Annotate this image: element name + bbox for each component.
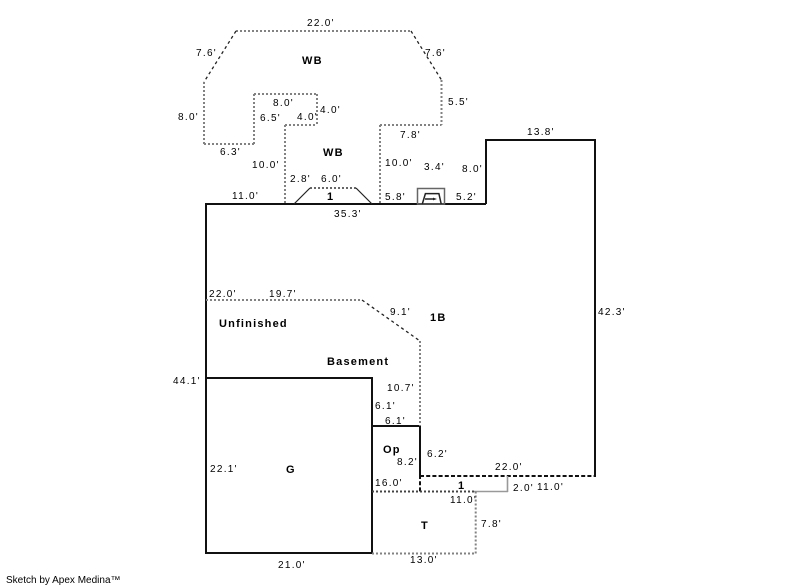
svg-text:5.5': 5.5' [448,97,469,108]
fireplace hearth line [425,198,434,200]
wire: deck WB right diagonal 7.6 [411,31,442,80]
svg-text:6.2': 6.2' [427,449,448,460]
svg-text:2.8': 2.8' [290,174,311,185]
svg-text:Unfinished: Unfinished [219,318,288,330]
wire: patio T right edge 7.8 dotted [475,492,477,555]
svg-text:1: 1 [327,191,334,203]
svg-text:42.3': 42.3' [598,307,626,318]
svg-text:6.0': 6.0' [321,174,342,185]
svg-text:4.0': 4.0' [297,112,318,123]
fireplace chimney outer box [418,189,445,205]
wire: stoop 1 left diagonal 2.8 [294,188,310,204]
svg-text:13.0': 13.0' [410,555,438,566]
wall: basement bottom edge 22.0 dashed [420,475,596,477]
svg-text:7.8': 7.8' [400,130,421,141]
svg-text:6.3': 6.3' [220,147,241,158]
svg-text:8.0': 8.0' [273,98,294,109]
svg-text:3.4': 3.4' [424,162,445,173]
svg-text:T: T [421,520,429,532]
svg-text:Basement: Basement [327,356,389,368]
wire: deck right vertical 5.5 [441,80,443,125]
wire: porch 1 bottom gray solid [474,491,508,493]
wall: basement top edge 35.3 [205,203,486,205]
wire: deck WB left diagonal 7.6 [204,31,236,82]
svg-text:35.3': 35.3' [334,209,362,220]
svg-text:8.0': 8.0' [462,164,483,175]
wire: basement interior dotted 22.0/19.7 [206,299,362,301]
wall: Op top edge 6.1 [372,425,421,427]
svg-text:6.1': 6.1' [385,416,406,427]
svg-text:11.0': 11.0' [232,191,259,202]
svg-text:WB: WB [323,147,344,159]
wire: patio T bottom edge 13.0 dotted [372,553,476,555]
svg-text:11.0': 11.0' [537,482,564,493]
wire: deck WB left vertical 8.0 [203,82,205,144]
svg-text:22.0': 22.0' [307,18,335,29]
wall: basement left edge 44.1 [205,203,207,554]
wire: porch 1 bottom dotted segment 16.0 [372,491,474,493]
wall: basement right edge 42.3 [594,140,596,477]
svg-text:5.2': 5.2' [456,192,477,203]
svg-text:8.2': 8.2' [397,457,418,468]
svg-text:22.1': 22.1' [210,464,238,475]
svg-text:7.8': 7.8' [481,519,502,530]
wire: deck notch right vertical 4.0 [316,94,318,125]
svg-text:22.0': 22.0' [495,462,523,473]
wall: basement top right edge 13.8 [485,139,596,141]
wire: deck notch top edge 8.0 [254,93,317,95]
wire: deck left 10.0 vertical [284,125,286,204]
svg-text:10.0': 10.0' [252,160,280,171]
wire: deck WB bottom edge 6.3 [204,143,254,145]
svg-text:G: G [286,464,296,476]
svg-text:Op: Op [383,444,401,456]
wire: porch 1 right gray vertical 2.0 [507,476,509,492]
fireplace inner firebox [422,194,441,204]
svg-text:22.0': 22.0' [209,289,237,300]
wall: Op right edge 6.2 [419,425,421,475]
svg-text:19.7': 19.7' [269,289,297,300]
svg-text:1: 1 [458,480,465,492]
svg-text:1B: 1B [430,312,446,324]
svg-text:5.8': 5.8' [385,192,406,203]
wire: stoop 1 right diagonal [356,188,372,204]
svg-text:7.6': 7.6' [425,48,446,59]
svg-text:4.0': 4.0' [320,105,341,116]
svg-text:16.0': 16.0' [375,478,403,489]
svg-text:10.7': 10.7' [387,383,415,394]
fireplace hearth arrow tip [433,198,437,201]
wire: basement interior dotted 10.7 vertical [419,341,421,426]
svg-text:6.1': 6.1' [375,401,396,412]
wire: deck WB top edge 22.0 [236,30,411,32]
wall: porch left edge 2.0 dashed [419,475,421,492]
wire: basement interior diagonal 9.1 [362,300,420,341]
svg-text:8.0': 8.0' [178,112,199,123]
svg-text:7.6': 7.6' [196,48,217,59]
wire: deck 7.8 horizontal [380,124,442,126]
svg-text:13.8': 13.8' [527,127,555,138]
wire: deck notch bottom edge 4.0 [285,124,317,126]
wire: stoop 1 top edge 6.0 [310,187,356,189]
svg-text:9.1': 9.1' [390,307,411,318]
svg-text:2.0': 2.0' [513,483,534,494]
svg-text:21.0': 21.0' [278,560,306,571]
wire: deck notch left vertical 6.5 [253,94,255,144]
wall: basement right step vertical 8.0 [485,140,487,204]
svg-text:6.5': 6.5' [260,113,281,124]
wall: garage G outline [206,378,372,553]
wire: deck right 10.0 vertical [379,125,381,204]
svg-text:11.0': 11.0' [450,495,477,506]
svg-text:Sketch by Apex Medina™: Sketch by Apex Medina™ [6,575,121,586]
svg-text:WB: WB [302,55,323,67]
svg-text:44.1': 44.1' [173,376,201,387]
svg-text:10.0': 10.0' [385,158,413,169]
